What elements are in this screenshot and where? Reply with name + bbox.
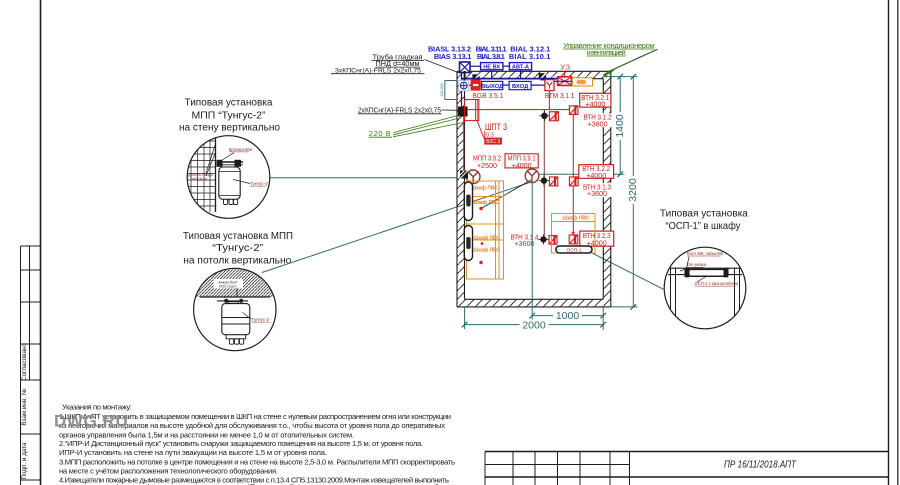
svg-text:Типовая установка: Типовая установка: [660, 208, 748, 219]
svg-text:Взам.инв. №: Взам.инв. №: [21, 388, 28, 426]
svg-text:2.“ИПР-И Дистанционный пуск” у: 2.“ИПР-И Дистанционный пуск” установить …: [59, 439, 423, 448]
svg-text:0.3: 0.3: [486, 132, 494, 138]
svg-text:ИПР-И установить на стене на п: ИПР-И установить на стене на пути эвакуа…: [59, 448, 327, 457]
svg-text:Указания по монтажу:: Указания по монтажу:: [62, 403, 132, 412]
svg-text:2000: 2000: [522, 319, 546, 331]
svg-text:2хКПСнг(А)-FRLS 2х2х0,75: 2хКПСнг(А)-FRLS 2х2х0,75: [358, 105, 441, 114]
svg-text:+3600: +3600: [587, 189, 607, 198]
svg-text:328.000: 328.000: [440, 84, 444, 97]
svg-text:Подп. и дата: Подп. и дата: [21, 442, 28, 480]
svg-text:Шкаф ЛВС: Шкаф ЛВС: [473, 235, 500, 242]
svg-text:3200: 3200: [627, 178, 639, 202]
svg-text:Согласовано: Согласовано: [21, 343, 28, 381]
svg-text:ВЫХОД: ВЫХОД: [481, 84, 504, 90]
svg-text:Кронштейн: Кронштейн: [229, 146, 253, 152]
svg-text:на месте с учётом расположения: на месте с учётом расположения технологи…: [59, 467, 278, 476]
svg-text:+2500: +2500: [477, 161, 497, 170]
svg-text:+3600: +3600: [588, 119, 608, 128]
svg-text:органов управления была 1,5м и: органов управления была 1,5м и на рассто…: [59, 430, 354, 439]
svg-text:НЕ ВХ: НЕ ВХ: [483, 64, 500, 70]
svg-text:ШПТ 3: ШПТ 3: [485, 122, 507, 132]
svg-text:3.МПП расположить на потолке в: 3.МПП расположить на потолке в центре по…: [59, 457, 455, 466]
svg-text:+4000: +4000: [512, 161, 532, 170]
svg-text:АВТ-А: АВТ-А: [512, 64, 529, 70]
svg-text:1400: 1400: [614, 114, 626, 138]
svg-text:“ОСП-1” в шкафу: “ОСП-1” в шкафу: [665, 220, 740, 232]
svg-text:+4000: +4000: [585, 100, 605, 109]
svg-text:МПП “Тунгус-2”: МПП “Тунгус-2”: [192, 111, 266, 122]
svg-text:Din-рейка: Din-рейка: [687, 262, 707, 267]
svg-text:ОСП-1 с кронштейном: ОСП-1 с кронштейном: [695, 281, 739, 286]
svg-text:на стену вертикально: на стену вертикально: [179, 123, 280, 134]
svg-text:Шкаф ЛВС: Шкаф ЛВС: [472, 199, 499, 206]
svg-text:Болт М6, гайка М6: Болт М6, гайка М6: [687, 251, 724, 256]
svg-text:BIAS 3.13.1: BIAS 3.13.1: [434, 52, 472, 61]
svg-text:ОСП-1: ОСП-1: [567, 248, 582, 254]
svg-text:BIAL 3.8.1: BIAL 3.8.1: [477, 52, 505, 61]
svg-text:6х60(4шт): 6х60(4шт): [191, 177, 208, 181]
svg-text:Типовая установка: Типовая установка: [185, 98, 273, 109]
svg-text:BGB 3.5.1: BGB 3.5.1: [472, 91, 503, 100]
svg-text:1000: 1000: [556, 310, 580, 322]
svg-text:+4000: +4000: [586, 171, 606, 180]
svg-text:М10 (2шт): М10 (2шт): [219, 284, 236, 288]
svg-text:Шкаф ЛВС: Шкаф ЛВС: [473, 246, 500, 253]
svg-text:Тунгус-2: Тунгус-2: [250, 181, 268, 186]
svg-text:BIAL 3.10.1: BIAL 3.10.1: [509, 52, 551, 61]
svg-text:ПР 16/11/2018.АПТ: ПР 16/11/2018.АПТ: [724, 459, 797, 470]
svg-text:+3600: +3600: [515, 239, 535, 248]
svg-text:Тунгус-2: Тунгус-2: [251, 317, 269, 322]
svg-text:ВХОД: ВХОД: [512, 84, 529, 90]
svg-text:Шкаф ЛВС: Шкаф ЛВС: [563, 215, 590, 222]
svg-text:“Тунгус-2”: “Тунгус-2”: [212, 243, 263, 254]
svg-text:У.3: У.3: [560, 63, 570, 72]
svg-text:DWG.RU: DWG.RU: [54, 411, 128, 430]
svg-text:Шкаф ЛВС: Шкаф ЛВС: [471, 185, 498, 192]
svg-text:на потолк вертикально: на потолк вертикально: [183, 255, 291, 266]
svg-text:ВЗС 3: ВЗС 3: [486, 139, 500, 145]
svg-text:Типовая установка МПП: Типовая установка МПП: [183, 231, 293, 242]
svg-text:220 В: 220 В: [369, 129, 391, 138]
